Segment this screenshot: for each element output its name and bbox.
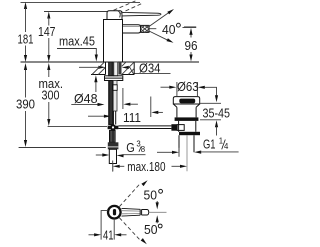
G 1 1/4 thread arrows <box>157 148 179 157</box>
spout <box>123 25 141 33</box>
svg-text:96: 96 <box>185 38 198 53</box>
shank lock nut <box>108 142 119 149</box>
plug cap <box>179 99 195 104</box>
deck hatching right <box>122 62 134 74</box>
dimension 96 (spout height) <box>184 27 198 62</box>
svg-text:181: 181 <box>18 32 34 47</box>
svg-text:max.45: max.45 <box>59 34 95 49</box>
svg-text:max.180: max.180 <box>127 159 165 174</box>
rod end block <box>171 124 177 131</box>
top view: faucet body circle <box>108 206 121 219</box>
svg-text:50: 50 <box>144 187 158 202</box>
top view lever <box>122 208 167 216</box>
horizontal pull rod to drain <box>118 125 171 127</box>
svg-text:40: 40 <box>162 22 176 37</box>
dimension max.45 (deck thickness) <box>57 34 98 62</box>
dimension 147 <box>38 12 56 63</box>
upper body <box>177 107 196 117</box>
spray angle 40 deg <box>149 8 196 45</box>
dimension 41 <box>89 211 127 243</box>
svg-text:8: 8 <box>141 145 145 154</box>
svg-text:1: 1 <box>219 136 223 145</box>
extension line at G3/8 connection level <box>19 147 106 149</box>
dimension 35-45 (clamping range) <box>200 103 230 135</box>
svg-text:Ø48: Ø48 <box>74 91 98 106</box>
threaded shank through deck <box>106 62 122 76</box>
dimension diameter 48 (base) <box>71 75 138 109</box>
G 3/8 thread arrows <box>96 153 110 156</box>
G 1 1/4 label <box>194 136 238 153</box>
svg-text:50: 50 <box>144 222 158 237</box>
svg-text:147: 147 <box>38 24 56 39</box>
svg-text:35-45: 35-45 <box>203 105 231 120</box>
svg-text:Ø63: Ø63 <box>177 79 199 94</box>
flexible hose dark <box>109 81 114 125</box>
dimension 111 <box>88 97 163 125</box>
G 3/8 supply pipe <box>109 149 116 171</box>
pull rod joint <box>108 124 119 130</box>
waste pipe <box>179 135 194 152</box>
dimension diameter 63 (flange) <box>161 79 219 102</box>
svg-text:G: G <box>126 140 135 155</box>
dimension diameter 34 (hole) leader <box>79 60 171 75</box>
lever grip <box>142 210 149 216</box>
deck surface line <box>21 61 200 63</box>
centerline <box>149 211 167 213</box>
dimension max.180 <box>113 159 187 174</box>
lower body <box>179 121 196 132</box>
swivel 50 deg lower <box>119 215 162 245</box>
lock nut <box>175 117 199 121</box>
svg-text:G1: G1 <box>203 136 216 151</box>
flexible hose light <box>113 81 117 125</box>
side clip <box>113 85 117 91</box>
dimension max.300 <box>39 63 64 126</box>
swivel 50 deg upper <box>119 179 162 209</box>
faucet body <box>104 0 162 62</box>
svg-text:390: 390 <box>16 97 35 112</box>
mounting washer <box>105 76 123 81</box>
pull rod tube <box>112 111 114 125</box>
neck taper <box>173 104 199 107</box>
extension line: top of handle boss <box>44 11 107 13</box>
svg-text:111: 111 <box>123 110 141 125</box>
pop-up drain assembly <box>171 97 200 172</box>
deck hatching left <box>92 62 105 74</box>
svg-text:Ø34: Ø34 <box>139 60 161 75</box>
svg-text:41: 41 <box>103 228 114 243</box>
dimension 181 <box>18 2 34 62</box>
lever bar <box>122 13 161 16</box>
handle boss <box>107 11 122 20</box>
extension line: top of raised lever <box>21 1 141 3</box>
aerator <box>141 25 150 32</box>
deck cross-section <box>91 62 134 75</box>
G 3/8 label <box>116 140 145 158</box>
lower clamp band <box>179 132 200 135</box>
dimension 390 <box>16 63 35 147</box>
flange cup <box>173 97 199 104</box>
extension line at hose end / pull rod level <box>48 125 107 127</box>
raised lever position dashed <box>114 0 138 10</box>
lower shank tube hatched <box>110 130 116 142</box>
svg-text:4: 4 <box>224 142 229 151</box>
svg-text:300: 300 <box>42 87 60 102</box>
